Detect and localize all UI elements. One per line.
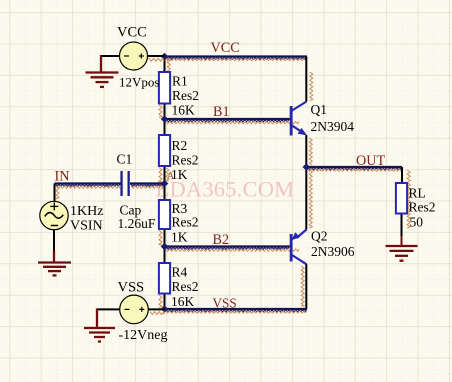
net label OUT <box>356 153 385 169</box>
wire Q2 collector vertical <box>301 264 306 309</box>
svg-text:VCC: VCC <box>117 25 147 41</box>
svg-text:1K: 1K <box>171 230 188 245</box>
capacitor C1 <box>117 152 156 232</box>
svg-text:OUT: OUT <box>356 153 385 169</box>
svg-text:Res2: Res2 <box>172 88 199 103</box>
wire OUT wire <box>306 167 402 171</box>
svg-text:Res2: Res2 <box>409 200 436 215</box>
wire B1 base wire <box>165 119 300 124</box>
net label B1 <box>213 104 230 120</box>
svg-text:R2: R2 <box>172 138 188 153</box>
voltage source V1 VCC 12Vpos <box>101 25 165 90</box>
svg-text:Q1: Q1 <box>311 102 328 117</box>
svg-text:A: A <box>167 171 174 182</box>
transistor Q2 2N3906 PNP <box>290 228 355 264</box>
net label B2 <box>213 232 230 248</box>
svg-text:IN: IN <box>55 169 70 185</box>
svg-text:VSS: VSS <box>213 296 237 311</box>
junction node B2 <box>161 243 169 251</box>
svg-text:12Vpos: 12Vpos <box>119 75 159 90</box>
wire Q1 emitter to OUT node <box>306 135 312 167</box>
svg-text:Q2: Q2 <box>311 228 328 243</box>
wire divider ladder vertical <box>159 57 170 310</box>
wire B2 base wire <box>165 247 300 252</box>
svg-text:1.26uF: 1.26uF <box>118 216 156 231</box>
svg-text:VSIN: VSIN <box>70 219 103 234</box>
svg-text:Res2: Res2 <box>172 279 199 294</box>
svg-text:VSS: VSS <box>118 280 145 296</box>
svg-text:16K: 16K <box>172 103 196 118</box>
svg-text:VCC: VCC <box>211 40 240 56</box>
svg-text:B2: B2 <box>213 232 230 248</box>
error marker near R2 value <box>167 171 174 182</box>
wire C1 to node A <box>130 184 165 189</box>
net label VSS <box>213 296 237 311</box>
junction node B1 <box>161 115 169 123</box>
resistor R3 <box>159 200 199 245</box>
svg-text:-12Vneg: -12Vneg <box>119 328 168 343</box>
svg-text:Res2: Res2 <box>172 153 199 168</box>
resistor R2 <box>159 135 199 182</box>
junction node VCC <box>161 53 169 61</box>
ground for VSIN source <box>38 263 71 276</box>
junction node OUT <box>303 163 311 171</box>
net label IN <box>55 169 70 185</box>
net label VCC <box>211 40 240 56</box>
junction node VSS <box>161 305 169 313</box>
svg-text:2N3904: 2N3904 <box>311 119 355 134</box>
voltage source V2 VSS -12Vneg <box>97 280 168 344</box>
wire Q1 collector vertical <box>306 57 313 102</box>
svg-text:R4: R4 <box>172 265 188 280</box>
wire RL to ground <box>401 214 403 246</box>
svg-text:1KHz: 1KHz <box>70 204 103 219</box>
wire IN input <box>55 184 122 202</box>
resistor R4 <box>159 263 199 309</box>
resistor RL <box>396 183 436 230</box>
watermark EDA365.COM <box>156 177 295 202</box>
svg-text:B1: B1 <box>213 104 230 120</box>
svg-text:RL: RL <box>409 186 426 201</box>
transistor Q1 2N3904 NPN <box>290 102 355 136</box>
voltage source V3 VSIN 1KHz <box>40 201 104 262</box>
svg-text:R1: R1 <box>172 74 188 89</box>
ground for RL load <box>386 246 418 261</box>
svg-text:Res2: Res2 <box>172 215 199 230</box>
wire OUT node to Q2 emitter <box>306 167 312 230</box>
svg-text:2N3906: 2N3906 <box>311 244 355 259</box>
wire RL drop <box>402 167 410 228</box>
junction node A <box>161 180 169 188</box>
svg-text:16K: 16K <box>171 294 195 309</box>
resistor R1 <box>159 72 199 118</box>
ground for VSS source <box>84 328 115 342</box>
svg-text:50: 50 <box>410 215 424 230</box>
wire VSS rail <box>165 309 308 313</box>
svg-text:C1: C1 <box>117 152 133 167</box>
ground for VCC source <box>86 73 119 87</box>
wire VCC rail <box>165 57 308 61</box>
